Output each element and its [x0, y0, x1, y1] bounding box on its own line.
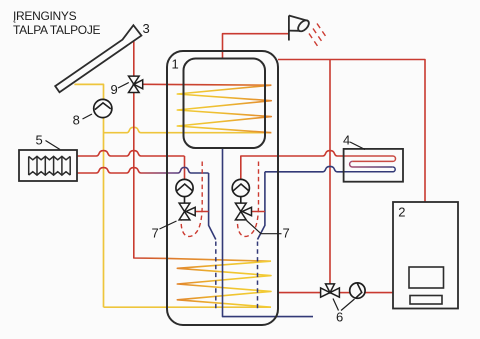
svg-text:ĮRENGINYS: ĮRENGINYS	[13, 9, 77, 23]
svg-text:TALPA TALPOJE: TALPA TALPOJE	[13, 23, 101, 37]
svg-text:7: 7	[283, 226, 290, 241]
svg-text:4: 4	[343, 133, 350, 148]
svg-text:9: 9	[111, 82, 118, 97]
svg-text:6: 6	[336, 310, 343, 325]
svg-text:1: 1	[172, 57, 179, 72]
svg-text:3: 3	[143, 21, 150, 36]
svg-text:5: 5	[36, 133, 43, 148]
svg-text:7: 7	[152, 226, 159, 241]
svg-text:8: 8	[73, 113, 80, 128]
svg-text:2: 2	[398, 205, 405, 220]
